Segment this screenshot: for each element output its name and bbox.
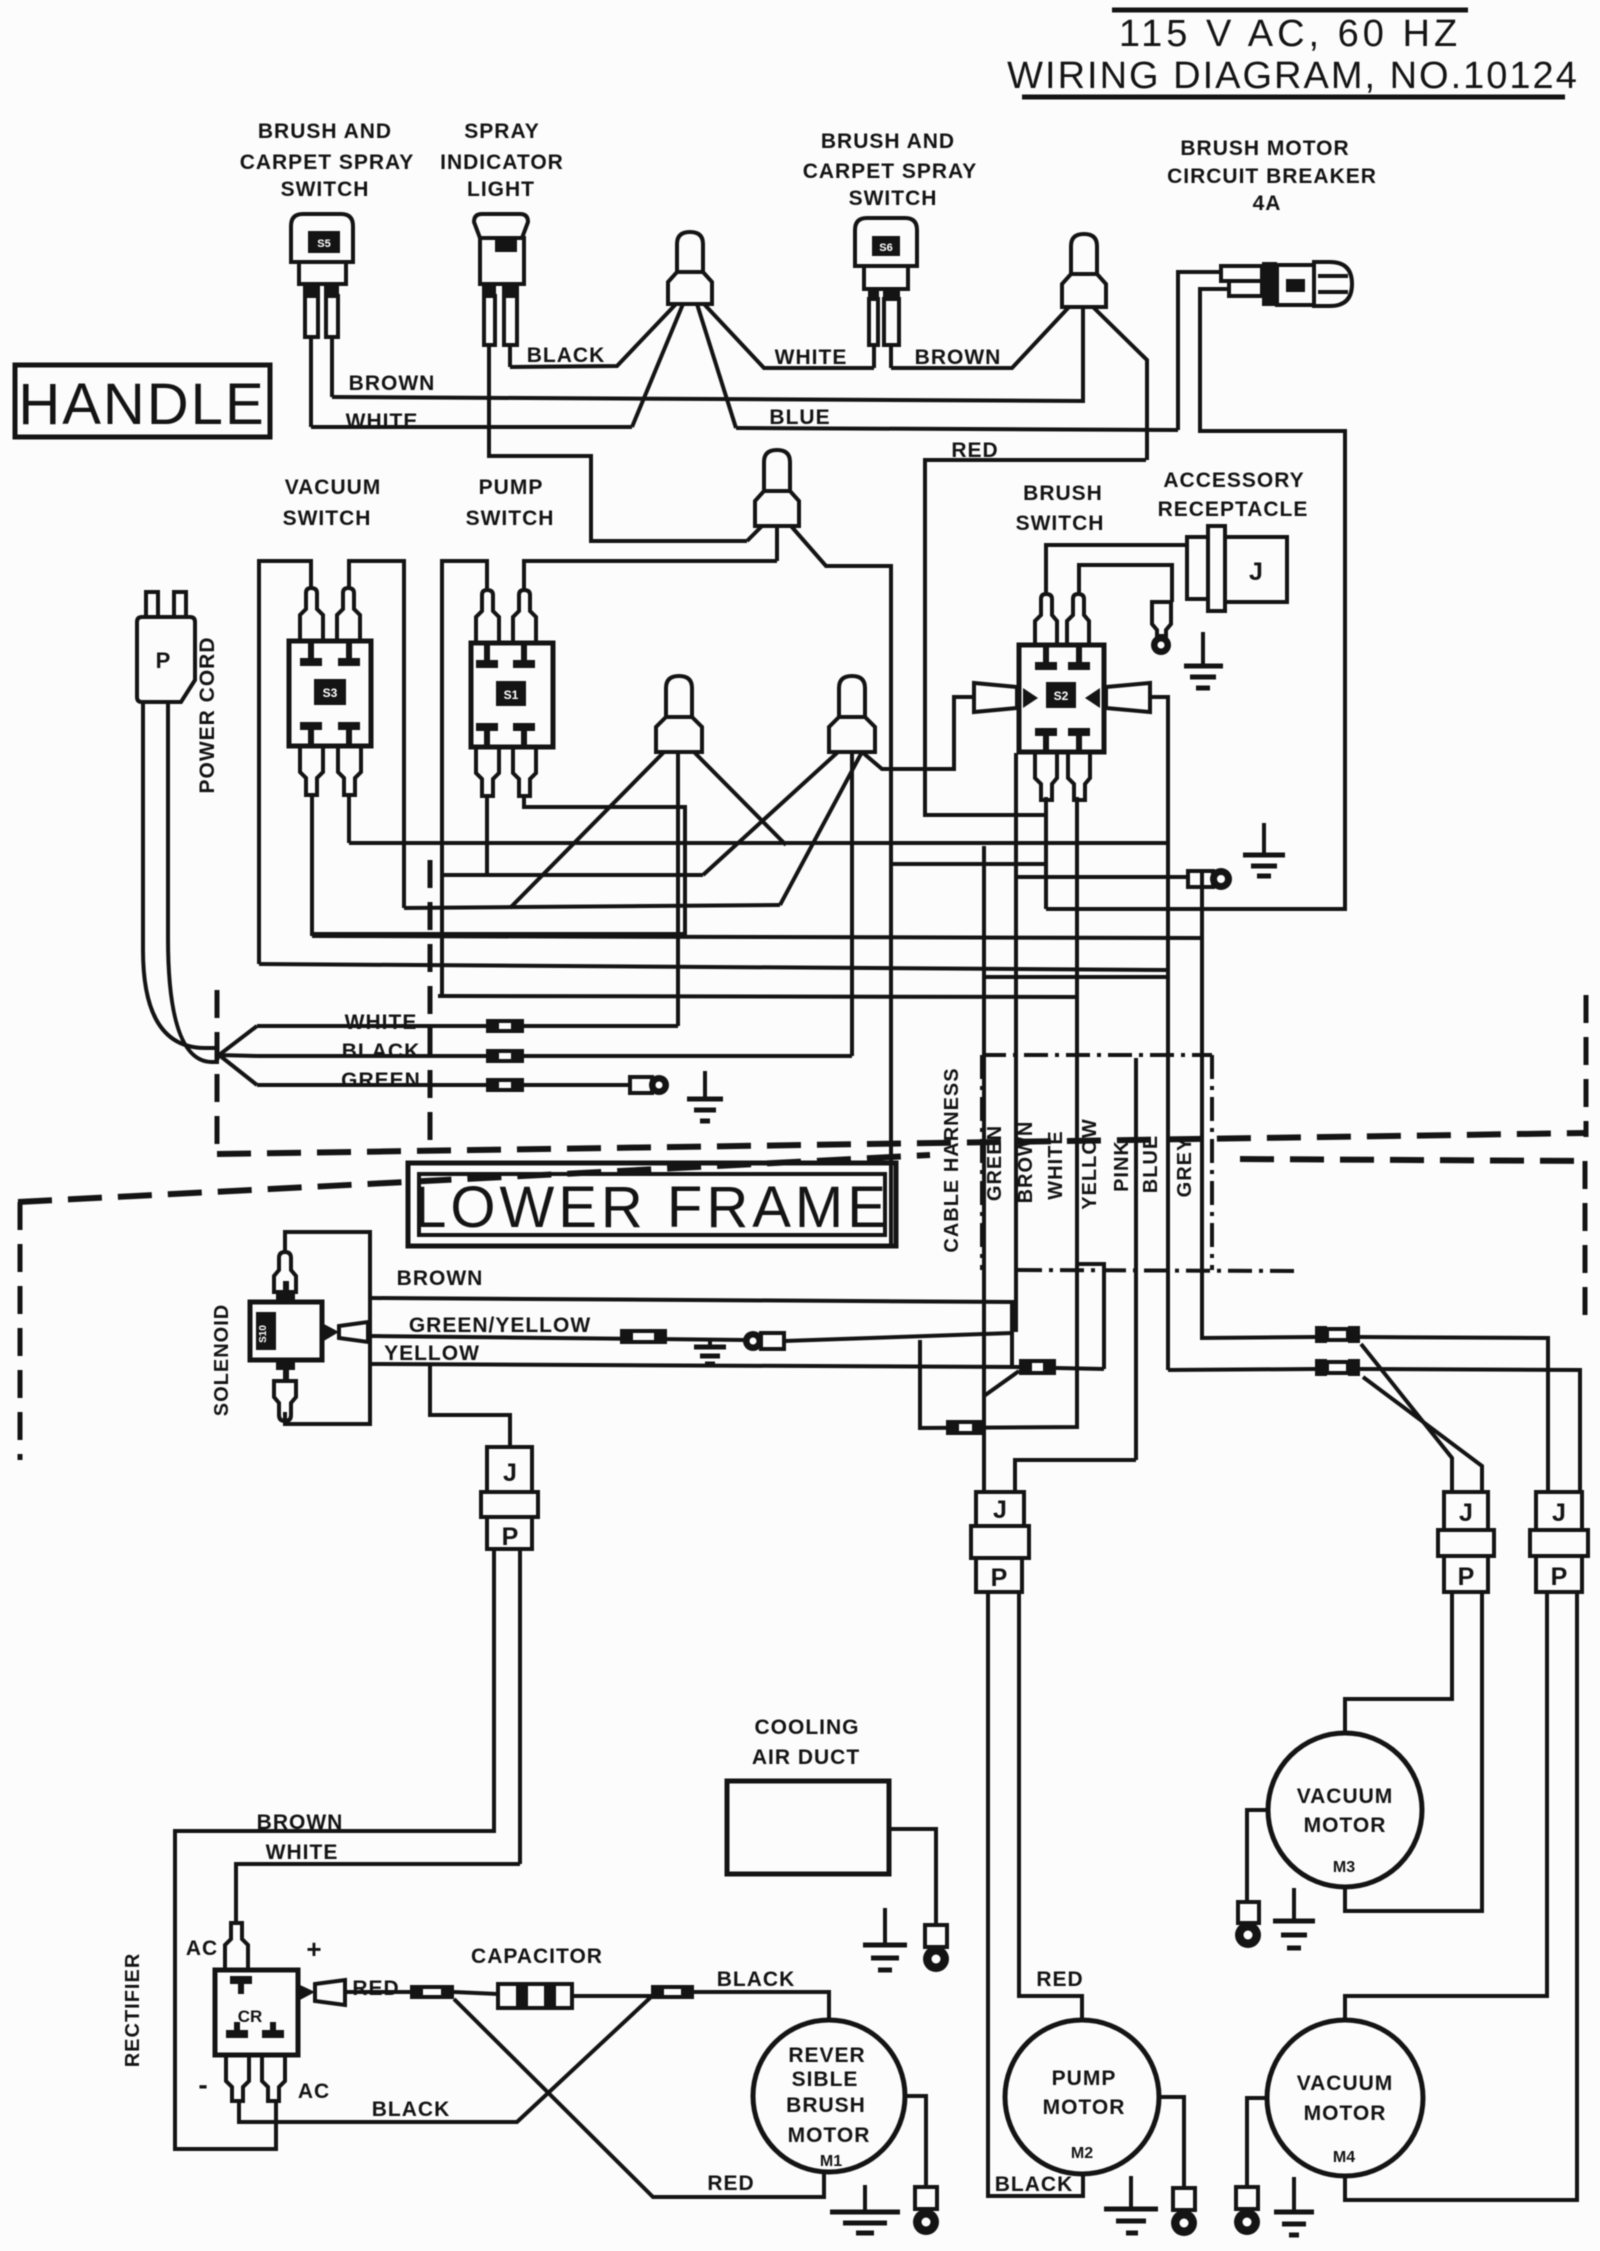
svg-text:P: P [1458, 1563, 1475, 1591]
svg-text:LIGHT: LIGHT [467, 178, 535, 201]
wire BLUE run [736, 428, 1178, 430]
cone connector mid (under light wire) [755, 450, 799, 526]
wire H3 [404, 905, 780, 908]
splice white in [486, 1019, 524, 1033]
wire lowerL cone center to WHITE in [676, 752, 680, 1026]
switch S6 [855, 218, 917, 345]
wire BLACK label run [510, 304, 676, 367]
wire red to splice [345, 1990, 410, 1994]
wire S3 BR prong to H1 [347, 795, 351, 843]
wire S6 right prong [889, 345, 893, 368]
svg-text:BLACK: BLACK [717, 1968, 796, 1991]
ring terminal green [630, 1075, 669, 1095]
wire green/yellow solenoid [370, 1336, 745, 1340]
svg-text:GREEN: GREEN [341, 1069, 421, 1092]
wire CB upper prong to BLUE [1178, 272, 1221, 430]
spade terminal S2 left [974, 683, 1017, 712]
dashed boundary vertical x430 [428, 860, 433, 1152]
harness wire pink drop [1134, 1058, 1138, 1460]
svg-text:INDICATOR: INDICATOR [440, 151, 564, 174]
wire S6 left prong [872, 345, 876, 368]
wire JP3 right cable to M3 bottom [1345, 1592, 1482, 1911]
wire cone to WHITE(S6) [704, 304, 874, 368]
dashed boundary lower horizontal right [1240, 1159, 1585, 1161]
stud M3 [1235, 1902, 1261, 1948]
wire M4 left to stud [1247, 2098, 1267, 2187]
svg-text:PINK: PINK [1111, 1140, 1133, 1192]
connector JP4 [1530, 1492, 1588, 1592]
wire JP4 right cable to M4 bottom [1345, 1592, 1577, 2200]
svg-text:BROWN: BROWN [915, 346, 1002, 369]
capacitor [498, 1984, 572, 2008]
wire M1 right to stud [904, 2096, 926, 2187]
cable JP1 to brown [492, 1549, 496, 1833]
wire lowerR cone left diag to H2 end [703, 752, 838, 875]
switch S1 pump [471, 590, 553, 796]
stud M4 [1234, 2187, 1260, 2235]
svg-text:SPRAY: SPRAY [464, 120, 539, 143]
wire yellow splice right [1056, 1368, 1104, 1369]
wire case ring branch [1016, 875, 1188, 879]
wire mid cone center [775, 526, 779, 561]
ring terminal (case ground) [1188, 868, 1232, 890]
motor M2 circle [1005, 2020, 1159, 2174]
svg-text:MOTOR: MOTOR [1043, 2096, 1126, 2119]
svg-text:J: J [1249, 558, 1263, 586]
svg-text:+: + [306, 1934, 321, 1964]
wire bus 977 [984, 975, 1168, 979]
svg-text:M2: M2 [1071, 2145, 1093, 2162]
wire S2 BR branch to yellow splice [1077, 1264, 1104, 1369]
svg-text:WIRING DIAGRAM, NO.10124: WIRING DIAGRAM, NO.10124 [1007, 55, 1579, 97]
svg-text:MOTOR: MOTOR [1304, 2102, 1387, 2125]
wire bus 864 [890, 862, 1046, 866]
svg-text:MOTOR: MOTOR [788, 2124, 871, 2147]
svg-text:AC: AC [298, 2080, 330, 2103]
svg-text:SWITCH: SWITCH [466, 507, 555, 530]
power plug P [137, 592, 195, 702]
motor M1 circle [753, 2020, 905, 2172]
svg-text:SWITCH: SWITCH [849, 187, 938, 210]
cone connector lower-left [656, 676, 702, 752]
wire brown solenoid [370, 1298, 1012, 1366]
svg-text:LOWER FRAME: LOWER FRAME [414, 1175, 890, 1240]
dashed boundary lower horizontal left [18, 1155, 930, 1202]
svg-text:WHITE: WHITE [266, 1841, 339, 1864]
wire lowerR cone right diag to S2 spade wire [862, 697, 974, 769]
svg-text:J: J [993, 1496, 1007, 1524]
ground M2 [1104, 2176, 1158, 2233]
dashed boundary vertical left lower [18, 1202, 23, 1460]
svg-text:M4: M4 [1333, 2149, 1355, 2166]
svg-text:J: J [503, 1459, 517, 1487]
ground green in [687, 1071, 723, 1121]
wire lowerL cone right diag [694, 752, 786, 845]
svg-text:CIRCUIT BREAKER: CIRCUIT BREAKER [1167, 165, 1377, 188]
svg-text:BLUE: BLUE [1140, 1135, 1162, 1193]
svg-text:M3: M3 [1333, 1859, 1355, 1876]
wire diagonal to JP2 [984, 1371, 1019, 1396]
splice red [410, 1985, 454, 1999]
svg-text:SOLENOID: SOLENOID [211, 1304, 233, 1416]
wire H5 [259, 964, 1168, 970]
connector JP1 [481, 1447, 538, 1551]
svg-text:POWER CORD: POWER CORD [196, 637, 219, 794]
svg-text:RED: RED [352, 1977, 399, 2000]
cone connector handle-right [1062, 234, 1106, 307]
wire white in [257, 1024, 678, 1028]
harness wire blue drop [1166, 977, 1170, 1370]
splice B blue [1315, 1359, 1360, 1376]
svg-text:BROWN: BROWN [1015, 1121, 1037, 1204]
svg-text:BRUSH AND: BRUSH AND [821, 130, 955, 153]
svg-text:CARPET SPRAY: CARPET SPRAY [240, 151, 415, 174]
svg-text:WHITE: WHITE [775, 346, 848, 369]
stud M2 [1171, 2188, 1197, 2236]
wire JP4 left cable to M4 top [1345, 1592, 1547, 2021]
svg-text:BLUE: BLUE [769, 406, 830, 429]
stud M1 [913, 2187, 939, 2235]
wire H4 extended to grey drop [312, 936, 1202, 938]
wire blue line to splice B [1168, 1369, 1315, 1370]
splice A grey [1315, 1326, 1360, 1343]
svg-text:PUMP: PUMP [1052, 2067, 1117, 2090]
svg-text:ACCESSORY: ACCESSORY [1163, 469, 1304, 492]
svg-text:CR: CR [238, 2007, 263, 2026]
wire splice A to JP4 left [1360, 1337, 1548, 1492]
svg-text:GREEN: GREEN [984, 1125, 1006, 1201]
svg-text:SIBLE: SIBLE [792, 2068, 859, 2091]
wire H2 [442, 873, 703, 877]
connector JP2 [971, 1492, 1029, 1592]
title rule top [1112, 8, 1468, 13]
splice green/yellow [620, 1329, 667, 1344]
svg-text:AC: AC [186, 1937, 218, 1960]
wire CB lower prong down right side [1046, 289, 1345, 909]
svg-text:GREEN/YELLOW: GREEN/YELLOW [409, 1314, 591, 1337]
svg-text:REVER: REVER [788, 2044, 865, 2067]
wire S5 left prong to WHITE [309, 337, 313, 427]
wire S5 right prong to BROWN [330, 337, 334, 397]
svg-text:BLACK: BLACK [995, 2173, 1074, 2196]
wire cone to WHITE(S5) line [632, 304, 683, 427]
splice yellow [1019, 1359, 1056, 1375]
wire light right prong to BLACK [508, 345, 512, 367]
svg-text:AIR DUCT: AIR DUCT [752, 1746, 860, 1769]
svg-text:P: P [991, 1564, 1008, 1592]
cone connector handle-left [668, 232, 712, 304]
wire S1 TR prong to mid cone [524, 561, 777, 590]
svg-text:GREY: GREY [1174, 1137, 1196, 1198]
svg-text:BRUSH: BRUSH [1023, 482, 1103, 505]
wire S3 BL prong [310, 795, 314, 936]
switch S2 brush [1019, 594, 1104, 800]
wire cone to BLUE line [697, 304, 736, 428]
spray indicator light [474, 214, 528, 345]
wire splice B diag to JP3 right [1363, 1377, 1482, 1492]
wire black in [257, 1054, 852, 1058]
svg-text:WHITE: WHITE [346, 410, 419, 433]
wire white rectifier [236, 1864, 520, 1923]
spade terminal S2 right [1106, 683, 1150, 712]
svg-text:RED: RED [707, 2172, 754, 2195]
svg-text:M1: M1 [820, 2153, 842, 2170]
power cord inner line [168, 702, 219, 1062]
wire black rectifier diag [239, 1997, 651, 2122]
wire bus 996 [438, 996, 1077, 997]
cord bracket to three wires [219, 1026, 257, 1085]
dashed boundary vertical right upper [1584, 995, 1589, 1137]
small prong with ring (S2 ground stud) [1151, 602, 1171, 655]
wire mid cone left diag [747, 526, 762, 541]
svg-text:CABLE HARNESS: CABLE HARNESS [941, 1067, 963, 1252]
dashed boundary upper horizontal [217, 1133, 1586, 1154]
wire green/yellow to frame drop [784, 1333, 1012, 1341]
wire S2 BR prong long drop [920, 797, 1077, 1428]
svg-text:PUMP: PUMP [479, 476, 544, 499]
wire lowerL cone left diag to H3 [510, 752, 664, 908]
svg-text:P: P [502, 1523, 519, 1551]
wire S3 TR prong [349, 561, 404, 908]
svg-text:RECTIFIER: RECTIFIER [122, 1953, 144, 2068]
wire S2 BL prong [1044, 797, 1048, 909]
svg-text:P: P [1551, 1563, 1568, 1591]
title underline [1022, 95, 1565, 100]
wire black to M1 top [694, 1992, 829, 2020]
wire JP3 left cable to M3 top [1345, 1592, 1452, 1733]
dashed boundary vertical right lower [1583, 1161, 1588, 1320]
svg-text:VACUUM: VACUUM [1297, 2072, 1394, 2095]
svg-text:CAPACITOR: CAPACITOR [471, 1945, 603, 1968]
ground duct [863, 1908, 907, 1970]
wire light left prong down [489, 345, 747, 541]
ground below receptacle [1184, 632, 1223, 688]
splice black in [486, 1049, 524, 1063]
svg-text:SWITCH: SWITCH [283, 507, 372, 530]
wire duct to stud [889, 1829, 936, 1925]
svg-text:VACUUM: VACUUM [1297, 1785, 1394, 1808]
cable harness box dash-dot [982, 1055, 1295, 1271]
ground M3 [1273, 1888, 1315, 1948]
wire splice B to JP4 right [1360, 1369, 1580, 1492]
splice green in [486, 1078, 524, 1092]
svg-text:COOLING: COOLING [755, 1716, 860, 1739]
circuit breaker CB [1221, 262, 1352, 306]
svg-text:BLACK: BLACK [527, 344, 606, 367]
wire BROWN long from S5 [332, 307, 1083, 401]
cable JP1 to white [518, 1549, 522, 1864]
connector JP3 [1438, 1492, 1494, 1592]
wire JP2 black cable [988, 1592, 1083, 2196]
solenoid loop wire [285, 1232, 370, 1424]
wire capacitor to splice2 [572, 1994, 651, 1998]
wire yellow branch to JP1 [430, 1364, 510, 1447]
solenoid S10 [250, 1252, 368, 1421]
svg-text:BROWN: BROWN [397, 1267, 484, 1290]
ground green/yellow [694, 1340, 726, 1364]
svg-text:BRUSH: BRUSH [786, 2094, 866, 2117]
wire S1 BR prong loop to S3 BL [312, 796, 685, 934]
svg-text:SWITCH: SWITCH [281, 178, 370, 201]
wire S1 TL prong [442, 561, 487, 996]
power cord outer line [143, 702, 219, 1048]
wire lowerR cone center to BLACK in [850, 752, 854, 1056]
accessory receptacle J [1187, 526, 1287, 611]
handle box [15, 365, 270, 437]
lower frame box [408, 1163, 896, 1246]
svg-text:BRUSH MOTOR: BRUSH MOTOR [1180, 137, 1349, 160]
switch S3 vacuum [289, 588, 371, 795]
wire green in [257, 1083, 630, 1087]
wire M3 left to stud [1247, 1810, 1268, 1902]
svg-text:P: P [156, 648, 171, 673]
wire grey drop to splice A [1202, 870, 1315, 1338]
splice black M1 [651, 1985, 694, 1999]
svg-text:WHITE: WHITE [1045, 1130, 1067, 1199]
motor M4 circle [1267, 2020, 1423, 2176]
rectifier CR [215, 1923, 345, 2101]
wire brown rectifier [175, 1831, 494, 2149]
wire JP2 red cable [1019, 1592, 1082, 2021]
wire S2 right spade down [1150, 697, 1168, 977]
wire red diag to M1 bottom [454, 1999, 824, 2197]
splice on 1428 line [946, 1420, 985, 1435]
wire JP2 right top riser [1015, 1460, 1136, 1492]
svg-text:BROWN: BROWN [349, 372, 436, 395]
wire S2 TL prong to receptacle [1046, 545, 1187, 594]
ring green/yellow [743, 1331, 784, 1351]
wire M2 right to stud [1159, 2097, 1184, 2188]
svg-text:BRUSH AND: BRUSH AND [258, 120, 392, 143]
svg-text:S10: S10 [258, 1325, 269, 1343]
svg-text:S1: S1 [504, 688, 519, 702]
svg-text:CARPET SPRAY: CARPET SPRAY [803, 160, 978, 183]
svg-text:HANDLE: HANDLE [18, 372, 265, 437]
svg-text:S3: S3 [323, 686, 338, 700]
ground near case ring [1243, 823, 1285, 876]
svg-text:YELLOW: YELLOW [384, 1342, 480, 1365]
wire yellow solenoid [370, 1364, 1021, 1367]
svg-text:-: - [198, 2069, 207, 2100]
wire cone right to RED drop [1093, 307, 1147, 460]
svg-text:4A: 4A [1253, 192, 1282, 215]
switch S5 [291, 214, 353, 337]
ground M4 [1274, 2177, 1314, 2235]
svg-text:SWITCH: SWITCH [1016, 512, 1105, 535]
svg-text:S2: S2 [1054, 689, 1069, 703]
svg-text:J: J [1459, 1499, 1473, 1527]
svg-text:YELLOW: YELLOW [1079, 1118, 1101, 1210]
wire S2 TR prong to ground stud [1079, 565, 1172, 602]
cooling air duct box [727, 1781, 889, 1874]
cone connector lower-right [829, 676, 875, 752]
svg-text:115 V AC, 60 HZ: 115 V AC, 60 HZ [1119, 13, 1461, 55]
svg-text:S6: S6 [879, 242, 892, 254]
stud duct [923, 1925, 949, 1972]
wire cone to BROWN(S6) [891, 307, 1069, 368]
wire WHITE from S5 [311, 425, 632, 429]
wire splice to capacitor [454, 1992, 498, 1994]
wire lowerR cone steep diag [780, 752, 862, 905]
wire mid cone right diag to long drop [791, 526, 891, 1245]
dashed boundary vertical left upper [215, 990, 220, 1155]
wire S1 BL prong [485, 796, 489, 875]
motor M3 circle [1268, 1733, 1422, 1887]
svg-text:J: J [1552, 1499, 1566, 1527]
svg-text:S5: S5 [317, 238, 330, 250]
svg-text:MOTOR: MOTOR [1304, 1814, 1387, 1837]
wire S2 case to ring [1014, 753, 1018, 1332]
wire splice A diag to JP3 left [1361, 1344, 1452, 1492]
harness wire green drop [982, 846, 986, 1492]
svg-text:RED: RED [1036, 1968, 1083, 1991]
svg-text:BLACK: BLACK [342, 1040, 421, 1063]
svg-text:WHITE: WHITE [345, 1011, 418, 1034]
svg-text:VACUUM: VACUUM [285, 476, 382, 499]
ground M1 [830, 2185, 900, 2233]
wire S3 TL prong [259, 561, 311, 964]
svg-text:RECEPTACLE: RECEPTACLE [1158, 498, 1309, 521]
wire RED run [925, 460, 1146, 815]
wire H1 S3-BR to S2 spade [349, 841, 1168, 845]
svg-text:BLACK: BLACK [372, 2098, 451, 2121]
